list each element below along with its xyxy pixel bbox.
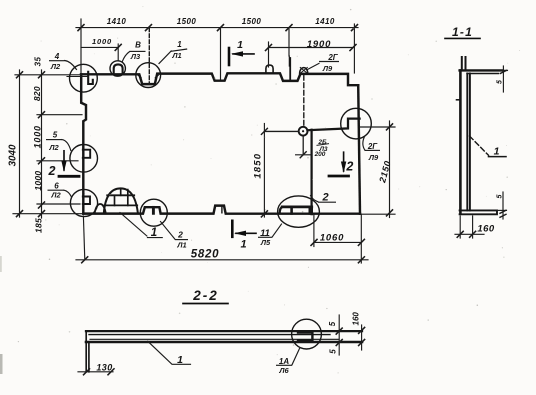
- svg-text:160: 160: [477, 223, 495, 234]
- section marker 2 right: [343, 152, 345, 171]
- svg-text:1000: 1000: [33, 171, 43, 191]
- extension x354.5: [353, 24, 355, 73]
- svg-text:Л1: Л1: [171, 51, 181, 60]
- section marker 1 bottom: [231, 221, 234, 237]
- leader 1A/L6: [292, 349, 300, 365]
- section marker 2 left: [63, 151, 65, 170]
- svg-text:1900: 1900: [307, 39, 331, 50]
- right extensions: [360, 126, 395, 128]
- dim 1850 vertical: [263, 124, 265, 218]
- svg-text:2: 2: [48, 164, 56, 178]
- panel left edge with jogs: [81, 74, 86, 213]
- dim 200 at node: [302, 136, 304, 155]
- left extensions: [15, 74, 80, 76]
- dim 160 right: [361, 325, 363, 350]
- svg-text:1: 1: [177, 40, 182, 49]
- interior horizontal line right of node with step: [307, 119, 359, 131]
- dashed rod in circle 1/L1 and extension 1410: [148, 28, 150, 84]
- interior vertical line: [310, 130, 312, 207]
- left tick: [457, 99, 461, 101]
- svg-text:1410: 1410: [315, 17, 335, 26]
- svg-text:185: 185: [34, 218, 44, 233]
- bottom flange: [460, 210, 497, 214]
- svg-text:3040: 3040: [8, 144, 19, 166]
- svg-text:2Г: 2Г: [367, 142, 378, 151]
- svg-text:200: 200: [314, 151, 326, 158]
- detail circle 5/L2: [70, 145, 98, 173]
- leader 2/L1 bottom: [161, 222, 176, 240]
- dim 2150 vertical: [389, 121, 391, 218]
- svg-text:Л9: Л9: [368, 153, 379, 162]
- svg-text:1410: 1410: [107, 17, 127, 26]
- svg-text:160: 160: [352, 312, 361, 326]
- node hinge circle: [299, 127, 308, 136]
- corner hook detail in circle 4: [88, 72, 93, 84]
- left dims outer line 3040: [19, 70, 21, 217]
- center leg of bottom bump: [221, 206, 223, 213]
- lifting loop V/L3: [114, 64, 123, 73]
- extension x220.5: [220, 28, 222, 79]
- cavity end in circle: [298, 333, 312, 341]
- title 2-2 underline: [183, 303, 228, 305]
- panel top edge with grooves: [81, 73, 358, 85]
- svg-text:1060: 1060: [320, 233, 344, 244]
- svg-text:Л6: Л6: [278, 366, 289, 375]
- detail circle V/L3: [110, 61, 125, 76]
- loop pins: [462, 57, 466, 69]
- dim 5820: [76, 259, 368, 261]
- svg-text:1-1: 1-1: [452, 25, 473, 39]
- leader V/L3: [122, 52, 129, 62]
- bar with legs in ellipse 11/L5: [282, 205, 312, 208]
- svg-text:Л2: Л2: [50, 62, 61, 71]
- svg-text:1А: 1А: [279, 357, 289, 366]
- lifting loop 2G: [300, 68, 308, 74]
- interior dashed hidden line: [303, 76, 305, 127]
- extension x289: [288, 28, 290, 66]
- section marker 1 top: [228, 48, 231, 65]
- detail ellipse 11/L5: [278, 196, 320, 227]
- dashed leader to 1: [470, 136, 489, 155]
- leader 1/L1: [159, 51, 171, 64]
- interior horizontal line left of node: [264, 130, 298, 132]
- dim 1060: [314, 241, 361, 243]
- panel bottom edge with features: [83, 206, 360, 214]
- svg-text:2Г: 2Г: [327, 53, 338, 62]
- small arch on bottom edge: [95, 204, 106, 213]
- svg-text:5: 5: [53, 130, 58, 139]
- leader 11/L5: [272, 224, 281, 237]
- dim 130: [78, 371, 113, 373]
- svg-text:820: 820: [32, 86, 42, 101]
- svg-text:2: 2: [177, 230, 183, 240]
- svg-text:1000: 1000: [92, 37, 112, 46]
- leader 4/L2: [65, 61, 77, 70]
- top right dim 5: [502, 66, 504, 92]
- lifting loop mid: [266, 65, 273, 74]
- leader 6/L2: [64, 190, 72, 197]
- chamfer marks in circle 1/L1: [138, 75, 158, 78]
- panel right edge: [358, 85, 360, 214]
- svg-text:5: 5: [328, 321, 337, 326]
- dim 1000 top-left: [81, 46, 118, 48]
- svg-text:1: 1: [494, 146, 500, 158]
- svg-text:1: 1: [177, 354, 183, 366]
- notch tab in circle 5: [83, 150, 90, 158]
- dome with grid on bottom edge: [104, 188, 138, 213]
- bar bottom thick line: [86, 341, 362, 344]
- notch tab in circle 6: [83, 197, 90, 205]
- svg-text:5: 5: [497, 80, 504, 84]
- svg-text:1850: 1850: [253, 153, 264, 179]
- title 1-1 underline: [445, 37, 480, 39]
- svg-text:Л2: Л2: [50, 190, 61, 199]
- leader 1 bar: [148, 341, 191, 364]
- detail circle 4/L2: [70, 64, 98, 92]
- svg-text:5820: 5820: [191, 249, 219, 261]
- svg-text:130: 130: [96, 362, 112, 372]
- leader dome 1: [120, 213, 147, 237]
- bar top line: [86, 330, 362, 332]
- dim 1900 top-right: [269, 47, 354, 49]
- wall: [459, 70, 462, 213]
- svg-text:1500: 1500: [177, 17, 197, 26]
- bar inner bottom line: [90, 338, 339, 340]
- leader ellipse 2: [311, 196, 319, 202]
- detail circle 1/L1: [136, 63, 161, 88]
- right dims extension: [338, 315, 340, 355]
- svg-text:1: 1: [240, 239, 246, 251]
- svg-text:Л5: Л5: [260, 238, 271, 247]
- svg-text:5: 5: [496, 194, 503, 198]
- left leg: [86, 331, 89, 372]
- svg-text:35: 35: [34, 57, 43, 67]
- svg-text:1500: 1500: [242, 17, 262, 26]
- svg-text:2: 2: [345, 160, 353, 174]
- T-leg in circle 2/L1: [152, 207, 155, 213]
- extension left edge up: [80, 19, 82, 74]
- scan smudges left edge: [0, 354, 3, 374]
- leader 2G/L9 top: [308, 63, 320, 69]
- svg-text:5: 5: [328, 349, 337, 354]
- svg-text:1: 1: [237, 39, 243, 51]
- detail circle 6/L2: [70, 189, 97, 216]
- svg-text:2-2: 2-2: [192, 288, 219, 303]
- detail circle 2G/L9: [341, 108, 372, 139]
- dim row1 line: [76, 27, 358, 29]
- svg-text:1000: 1000: [32, 125, 42, 148]
- svg-text:Л3: Л3: [130, 52, 141, 61]
- svg-text:Л1: Л1: [176, 240, 186, 249]
- bar inner top line: [89, 334, 330, 336]
- detail circle 2/L1: [140, 199, 167, 226]
- svg-text:Л9: Л9: [322, 64, 333, 73]
- leader 5/L2: [62, 140, 71, 151]
- leader 2G/L9 right: [363, 137, 365, 151]
- svg-text:В: В: [135, 41, 141, 50]
- top flange: [460, 69, 502, 71]
- svg-text:4: 4: [54, 52, 60, 61]
- dim 160 bottom: [460, 216, 472, 238]
- dim row1 ticks: [78, 25, 358, 31]
- bottom right dim 5: [497, 209, 507, 211]
- left dims inner line: [41, 70, 43, 218]
- detail circle 1A/L6: [292, 319, 322, 349]
- svg-text:Л2: Л2: [48, 143, 59, 152]
